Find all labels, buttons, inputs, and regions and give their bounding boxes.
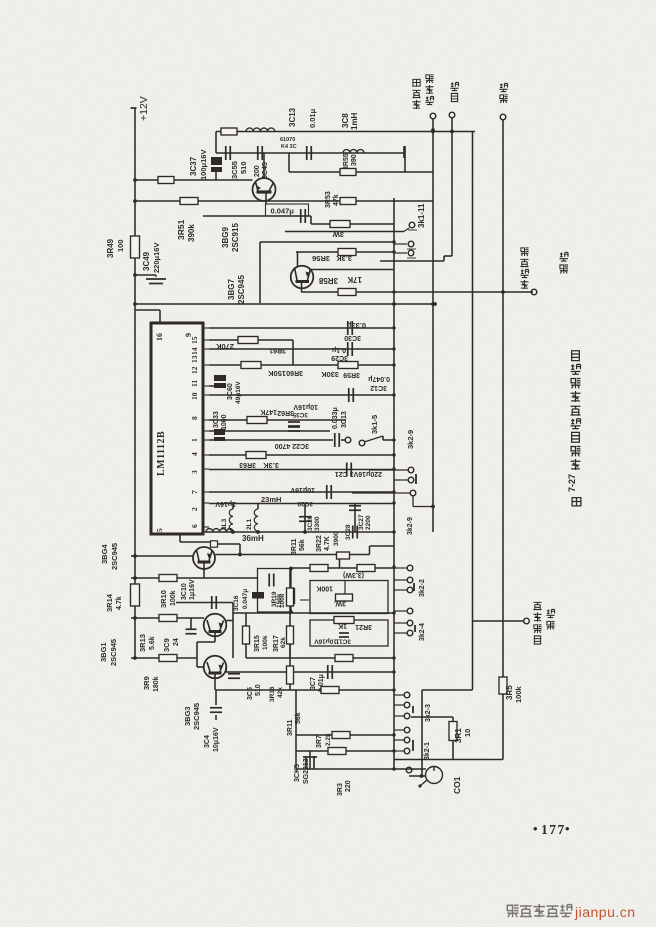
svg-text:100K: 100K [316, 585, 333, 592]
svg-text:3BG4: 3BG4 [100, 544, 109, 564]
svg-text:36mH: 36mH [242, 534, 264, 543]
svg-text:2SC945: 2SC945 [109, 639, 118, 666]
svg-text:10: 10 [463, 729, 472, 737]
svg-text:8: 8 [190, 416, 199, 420]
svg-text:5: 5 [155, 528, 164, 532]
svg-text:3C55: 3C55 [230, 161, 239, 179]
svg-text:3R17: 3R17 [273, 635, 280, 652]
svg-text:0.047μ: 0.047μ [271, 207, 295, 216]
svg-text:24: 24 [173, 638, 180, 646]
svg-text:3R60: 3R60 [286, 369, 303, 376]
svg-text:11: 11 [190, 380, 199, 387]
svg-text:3C10: 3C10 [181, 583, 188, 600]
svg-text:LM1112B: LM1112B [156, 431, 167, 476]
svg-text:10μ16V: 10μ16V [293, 403, 318, 410]
svg-text:3R5: 3R5 [505, 685, 514, 700]
svg-text:3W.: 3W. [334, 600, 346, 607]
svg-text:1mH: 1mH [350, 112, 359, 130]
svg-text:6: 6 [190, 524, 199, 528]
svg-text:12: 12 [190, 366, 199, 374]
svg-text:3R14: 3R14 [105, 593, 114, 612]
svg-text:3k2-2: 3k2-2 [419, 579, 426, 597]
svg-text:10μ16V: 10μ16V [213, 727, 220, 752]
svg-text:7: 7 [190, 490, 199, 494]
svg-text:SG2213: SG2213 [303, 758, 310, 784]
svg-text:2SC945: 2SC945 [192, 703, 201, 730]
svg-text:2: 2 [190, 507, 199, 511]
svg-text:3R22: 3R22 [316, 535, 323, 552]
svg-text:3C26: 3C26 [307, 515, 314, 531]
svg-text:3R53: 3R53 [325, 191, 332, 208]
svg-text:100k: 100k [514, 685, 523, 703]
svg-text:+12V: +12V [138, 96, 150, 121]
svg-text:13: 13 [190, 355, 199, 363]
svg-text:3C9: 3C9 [162, 638, 171, 652]
svg-text:3C35: 3C35 [292, 411, 308, 418]
svg-text:3C13: 3C13 [288, 107, 297, 127]
svg-text:10μ16V: 10μ16V [290, 486, 315, 493]
svg-text:3.3K: 3.3K [336, 254, 352, 263]
svg-text:3R11: 3R11 [291, 539, 298, 555]
svg-text:1: 1 [190, 438, 199, 442]
svg-text:220μ16V3 C21: 220μ16V3 C21 [335, 470, 382, 477]
svg-text:3k2-9: 3k2-9 [406, 430, 415, 449]
svg-text:3900: 3900 [333, 531, 340, 546]
svg-text:3R61: 3R61 [269, 347, 286, 354]
svg-text:3C29: 3C29 [331, 354, 348, 361]
svg-text:10: 10 [190, 392, 199, 400]
svg-text:3R7: 3R7 [316, 735, 323, 748]
svg-text:150K: 150K [267, 369, 286, 378]
svg-text:4: 4 [190, 452, 199, 456]
svg-text:390: 390 [351, 154, 358, 166]
svg-text:3C13: 3C13 [341, 411, 348, 428]
svg-text:3k2-4: 3k2-4 [419, 623, 426, 641]
svg-text:3k1-5: 3k1-5 [370, 415, 379, 434]
svg-text:0.047μ: 0.047μ [368, 375, 390, 382]
svg-text:3.3K: 3.3K [263, 461, 279, 470]
svg-text:7-27: 7-27 [567, 474, 577, 492]
svg-text:3R58: 3R58 [318, 276, 338, 285]
svg-text:3300: 3300 [314, 516, 321, 531]
svg-text:2L1: 2L1 [246, 518, 253, 530]
svg-text:CO1: CO1 [452, 776, 462, 794]
svg-text:(3.3W): (3.3W) [343, 571, 364, 578]
svg-text:3C22 4700: 3C22 4700 [275, 442, 309, 449]
svg-text:3C11: 3C11 [335, 638, 351, 645]
svg-text:3R21: 3R21 [355, 623, 372, 630]
svg-text:3BG1: 3BG1 [99, 642, 108, 662]
svg-text:0.033μ: 0.033μ [332, 407, 339, 429]
svg-text:3k2-9: 3k2-9 [407, 517, 414, 535]
svg-text:jianpu.cn: jianpu.cn [574, 904, 636, 920]
svg-text:23mH: 23mH [261, 495, 281, 504]
svg-text:56k: 56k [299, 539, 306, 551]
svg-text:3C8: 3C8 [341, 113, 350, 128]
svg-text:3C30: 3C30 [344, 334, 361, 341]
svg-text:3R15: 3R15 [254, 635, 261, 652]
svg-text:4.7K: 4.7K [324, 536, 331, 551]
svg-text:3CK5: 3CK5 [294, 764, 301, 782]
svg-text:3R10: 3R10 [159, 590, 168, 608]
svg-text:3k2-1: 3k2-1 [424, 742, 431, 760]
svg-text:47k: 47k [333, 194, 340, 206]
svg-text:3R49: 3R49 [106, 238, 115, 258]
svg-text:3R13: 3R13 [138, 634, 147, 652]
svg-text:150k: 150k [276, 593, 283, 608]
svg-text:•: • [533, 821, 538, 836]
svg-text:180k: 180k [153, 676, 160, 692]
svg-text:3C37: 3C37 [189, 156, 198, 176]
svg-text:15: 15 [190, 336, 199, 344]
svg-text:3R59: 3R59 [343, 371, 360, 378]
svg-text:2SC945: 2SC945 [237, 275, 246, 304]
svg-text:17K: 17K [347, 275, 362, 284]
svg-text:3C5: 3C5 [247, 687, 254, 700]
svg-text:49μ16V: 49μ16V [235, 381, 242, 404]
svg-text:2SC945: 2SC945 [110, 543, 119, 570]
svg-text:3C27: 3C27 [358, 514, 365, 530]
svg-text:220: 220 [345, 780, 352, 792]
svg-text:330K: 330K [320, 370, 339, 379]
svg-text:3R1: 3R1 [454, 728, 463, 743]
svg-text:0.1μ: 0.1μ [332, 346, 346, 353]
svg-text:3C60: 3C60 [227, 383, 234, 400]
svg-text:3C4: 3C4 [204, 735, 211, 748]
svg-text:3R63: 3R63 [239, 461, 256, 468]
svg-text:2SC915: 2SC915 [231, 223, 240, 252]
svg-text:1μ16V: 1μ16V [189, 579, 196, 600]
svg-text:3R56: 3R56 [312, 254, 330, 263]
svg-text:3C49: 3C49 [142, 251, 151, 271]
svg-text:3: 3 [190, 470, 199, 474]
svg-text:3C16: 3C16 [233, 595, 240, 611]
svg-text:4.7k: 4.7k [116, 596, 123, 610]
svg-text:100: 100 [116, 239, 125, 252]
svg-text:2.2k: 2.2k [325, 733, 332, 746]
svg-text:5.6k: 5.6k [149, 636, 156, 650]
svg-text:3R11: 3R11 [287, 720, 294, 736]
svg-text:3R62: 3R62 [277, 409, 294, 416]
svg-text:3R3: 3R3 [337, 783, 344, 796]
svg-text:177: 177 [541, 822, 566, 837]
svg-text:0.33μ: 0.33μ [346, 321, 366, 330]
svg-text:61070: 61070 [280, 137, 295, 143]
svg-text:220μ16V: 220μ16V [152, 243, 161, 273]
svg-text:3BG9: 3BG9 [221, 227, 230, 248]
svg-text:3C33: 3C33 [213, 411, 220, 428]
svg-text:200: 200 [254, 165, 261, 177]
svg-text:K4 3C: K4 3C [281, 144, 297, 150]
svg-text:3C28: 3C28 [345, 524, 352, 540]
svg-text:0.01μ: 0.01μ [308, 108, 317, 128]
svg-text:3R55: 3R55 [343, 153, 350, 170]
svg-text:3R9: 3R9 [142, 676, 151, 690]
svg-text:147K: 147K [260, 408, 277, 415]
svg-text:3C45: 3C45 [262, 162, 269, 179]
svg-text:3BG7: 3BG7 [227, 279, 236, 300]
svg-text:3C7: 3C7 [310, 677, 317, 690]
svg-text:3k2-3: 3k2-3 [425, 704, 432, 722]
svg-text:3BG3: 3BG3 [183, 706, 192, 726]
svg-text:390k: 390k [187, 224, 196, 242]
svg-text:3R16: 3R16 [269, 686, 276, 702]
svg-text:100k: 100k [170, 590, 177, 606]
svg-text:100μ16V: 100μ16V [199, 150, 208, 180]
svg-text:62k: 62k [280, 637, 287, 648]
svg-text:1000: 1000 [221, 414, 228, 430]
svg-text:0.047μ: 0.047μ [242, 589, 249, 609]
svg-text:42k: 42k [277, 687, 284, 698]
svg-text:3R51: 3R51 [176, 219, 186, 240]
svg-text:100k: 100k [262, 635, 269, 650]
svg-text:1K: 1K [338, 622, 347, 629]
svg-text:3C12: 3C12 [370, 384, 387, 391]
svg-text:3k1-11: 3k1-11 [417, 203, 426, 228]
svg-text:2200: 2200 [365, 515, 372, 530]
svg-text:10μ16V: 10μ16V [314, 638, 337, 645]
svg-text:14: 14 [190, 347, 199, 355]
svg-text:•: • [565, 821, 570, 836]
svg-text:16: 16 [155, 333, 164, 341]
svg-text:9: 9 [184, 333, 193, 337]
svg-text:510: 510 [239, 161, 248, 174]
